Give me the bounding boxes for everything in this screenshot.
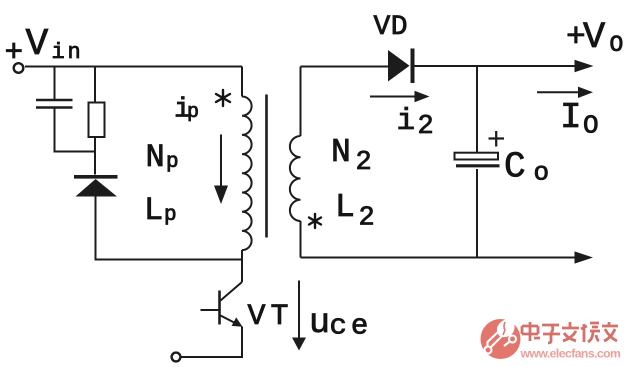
svg-text:p: p	[164, 204, 177, 227]
svg-text:V: V	[583, 17, 605, 59]
svg-text:ce: ce	[330, 310, 373, 343]
svg-text:O: O	[583, 111, 599, 141]
svg-text:+: +	[5, 36, 24, 71]
svg-text:p: p	[187, 101, 199, 124]
svg-text:VT: VT	[248, 300, 294, 334]
svg-text:I: I	[560, 97, 582, 138]
svg-text:u: u	[309, 303, 330, 343]
svg-text:p: p	[166, 151, 179, 174]
svg-text:o: o	[534, 158, 550, 188]
svg-text:C: C	[504, 147, 526, 188]
svg-text:www.elecfans.com: www.elecfans.com	[520, 347, 622, 361]
svg-text:2: 2	[359, 204, 375, 234]
svg-text:N: N	[146, 139, 165, 176]
svg-text:O: O	[610, 32, 624, 58]
svg-text:N: N	[331, 134, 351, 171]
svg-text:L: L	[144, 192, 163, 229]
svg-text:in: in	[52, 40, 84, 65]
svg-text:2: 2	[418, 112, 434, 142]
svg-text:i: i	[397, 104, 416, 139]
svg-text:VD: VD	[374, 12, 409, 43]
svg-text:2: 2	[356, 148, 372, 178]
svg-text:V: V	[26, 23, 49, 66]
svg-text:L: L	[335, 189, 355, 226]
